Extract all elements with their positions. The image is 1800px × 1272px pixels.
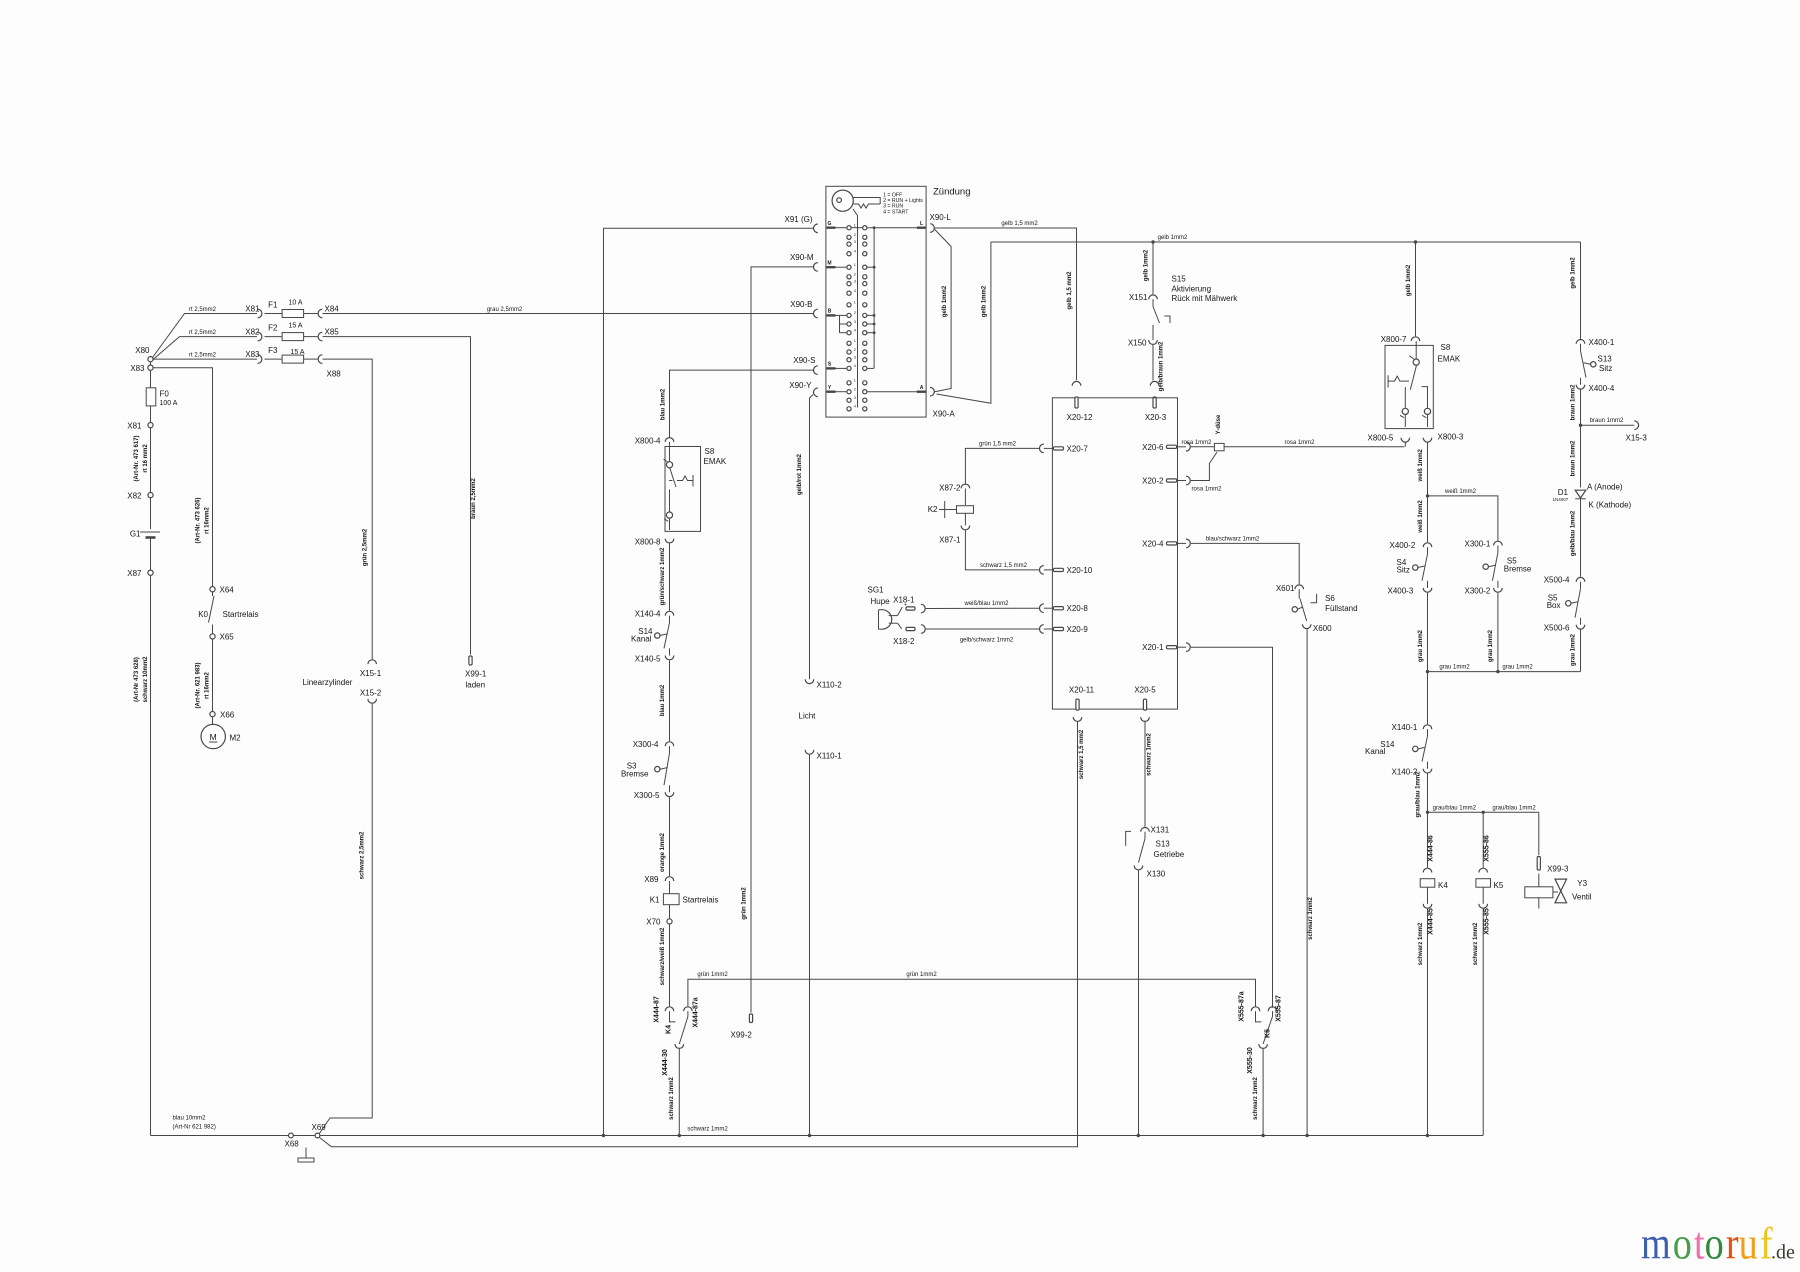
svg-text:X20-12: X20-12	[1067, 413, 1093, 422]
svg-text:X444-85: X444-85	[1428, 908, 1435, 935]
bus upper schwarz 1mm2	[320, 1135, 1483, 1137]
connector X90-M	[813, 263, 817, 272]
svg-text:Y-düse: Y-düse	[1216, 414, 1222, 434]
svg-text:X140-4: X140-4	[635, 610, 661, 619]
svg-text:X81: X81	[127, 422, 142, 431]
svg-text:X90-Y: X90-Y	[789, 381, 812, 390]
pin X20-4	[1186, 539, 1190, 548]
switch S13 Getriebe	[1144, 832, 1146, 839]
svg-text:X15-3: X15-3	[1626, 434, 1648, 443]
node X82	[148, 493, 153, 498]
connector X87-1	[961, 526, 970, 530]
wire grau to grau bus	[1580, 630, 1582, 672]
wire to valve Y3	[1483, 811, 1539, 813]
svg-text:X444-87a: X444-87a	[693, 997, 700, 1027]
svg-text:t: t	[1694, 1218, 1705, 1269]
svg-text:X131: X131	[1151, 826, 1170, 835]
svg-text:F1: F1	[268, 301, 278, 310]
svg-text:(Art-Nr 473 628): (Art-Nr 473 628)	[134, 657, 140, 702]
junction weiss	[1426, 494, 1429, 497]
junction	[1305, 1134, 1308, 1137]
wire schwarz K5 to bus	[1482, 909, 1484, 1136]
svg-text:X18-2: X18-2	[893, 637, 915, 646]
connector X140-1	[1423, 725, 1432, 729]
svg-text:S15: S15	[1172, 275, 1187, 284]
svg-text:gelb 1,5 mm2: gelb 1,5 mm2	[1067, 271, 1073, 310]
connector X500-6	[1576, 625, 1585, 629]
connector X89	[665, 877, 674, 881]
pin X20-8	[1040, 604, 1044, 613]
svg-text:rt 2,5mm2: rt 2,5mm2	[189, 353, 217, 359]
svg-text:X18-1: X18-1	[893, 596, 915, 605]
junction	[1261, 1134, 1264, 1137]
svg-text:X20-10: X20-10	[1067, 566, 1093, 575]
svg-text:4: 4	[854, 364, 856, 368]
relay coil K1 Startrelais	[669, 881, 671, 894]
svg-text:weiß/blau 1mm2: weiß/blau 1mm2	[963, 601, 1009, 607]
wire schwarz K4 to bus	[1427, 909, 1429, 1136]
svg-text:X90-S: X90-S	[793, 356, 815, 365]
wire X110-1 down to bus	[809, 757, 811, 1136]
svg-text:X20-7: X20-7	[1067, 444, 1089, 453]
wire schwarz 2,5mm2	[319, 704, 372, 1134]
connector X83 fuse row	[258, 355, 262, 364]
svg-text:X444-87: X444-87	[654, 996, 661, 1023]
svg-text:F0: F0	[160, 390, 170, 399]
switch S5 Bremse	[1497, 546, 1499, 553]
junction grau/blau	[1426, 811, 1429, 814]
wire orange down	[669, 797, 671, 876]
svg-text:X88: X88	[327, 370, 342, 379]
svg-text:X555-87: X555-87	[1276, 995, 1283, 1022]
svg-text:Rück mit Mähwerk: Rück mit Mähwerk	[1172, 294, 1239, 303]
pin X20-2	[1186, 476, 1190, 485]
connector X140-2	[1423, 769, 1432, 773]
svg-text:rt 2,5mm2: rt 2,5mm2	[189, 330, 217, 336]
wire gruen/schwarz down	[669, 543, 671, 610]
node X81	[148, 423, 153, 428]
wire X600 down to bus	[1306, 629, 1308, 1135]
svg-text:schwarz/weiß 1mm2: schwarz/weiß 1mm2	[660, 927, 666, 985]
svg-text:K5: K5	[1494, 881, 1504, 890]
svg-text:X110-1: X110-1	[817, 752, 843, 761]
svg-text:schwarz 1mm2: schwarz 1mm2	[687, 1127, 728, 1133]
svg-text:1: 1	[854, 263, 856, 267]
svg-text:X87: X87	[127, 569, 142, 578]
svg-text:X87-1: X87-1	[939, 536, 961, 545]
svg-text:S8: S8	[1441, 343, 1451, 352]
relay contact K4 changeover	[670, 1011, 676, 1022]
svg-text:F3: F3	[268, 346, 278, 355]
svg-text:A (Anode): A (Anode)	[1587, 483, 1623, 492]
junction	[1426, 1134, 1429, 1137]
svg-text:grau 2,5mm2: grau 2,5mm2	[487, 307, 523, 313]
svg-text:o: o	[1705, 1218, 1724, 1269]
wire X800-5 to rosa line	[1404, 443, 1406, 447]
svg-text:4: 4	[854, 405, 856, 409]
svg-text:X90-L: X90-L	[930, 213, 952, 222]
svg-text:.de: .de	[1771, 1242, 1795, 1264]
svg-text:rosa 1mm2: rosa 1mm2	[1191, 486, 1222, 492]
wire X20-5 down to X131	[1144, 722, 1146, 827]
svg-text:X400-3: X400-3	[1388, 587, 1414, 596]
pin X20-11	[1076, 699, 1079, 710]
svg-text:X64: X64	[220, 586, 235, 595]
switch S4 Sitz	[1427, 547, 1429, 554]
ignition rotor line	[853, 209, 858, 408]
connector X110-2	[805, 679, 814, 683]
svg-text:X83: X83	[245, 350, 260, 359]
wire	[293, 1135, 315, 1137]
svg-text:blau 1mm2: blau 1mm2	[661, 388, 667, 420]
svg-text:15 A: 15 A	[289, 323, 303, 330]
svg-text:3: 3	[854, 320, 856, 324]
svg-text:grau 1mm2: grau 1mm2	[1488, 629, 1494, 662]
svg-text:S13: S13	[1156, 840, 1171, 849]
svg-text:S8: S8	[705, 447, 715, 456]
wire	[150, 498, 152, 529]
pin X20-9	[1040, 625, 1044, 634]
svg-text:Kanal: Kanal	[1365, 747, 1386, 756]
wire gelb bus to X400-1	[1580, 242, 1582, 339]
junction	[1137, 1134, 1140, 1137]
connector X84	[304, 313, 318, 315]
wire X90-L jumper to X90-A	[935, 230, 951, 392]
ignition internal bus	[873, 228, 875, 369]
svg-text:grün 1,5 mm2: grün 1,5 mm2	[979, 441, 1017, 447]
svg-text:o: o	[1673, 1218, 1692, 1269]
svg-text:X66: X66	[220, 711, 235, 720]
svg-text:K5: K5	[1265, 1029, 1272, 1038]
connector X87-2	[961, 484, 970, 488]
svg-text:Bremse: Bremse	[1504, 565, 1532, 574]
svg-text:K4: K4	[666, 1025, 673, 1034]
svg-text:Linearzylinder: Linearzylinder	[303, 678, 353, 687]
switch S14 Kanal right	[1427, 729, 1429, 736]
fuse F2	[265, 336, 283, 338]
connector X99-3	[1537, 857, 1540, 871]
wire	[150, 370, 152, 388]
svg-text:A: A	[920, 385, 924, 391]
svg-text:schwarz 1,5 mm2: schwarz 1,5 mm2	[1079, 729, 1085, 779]
wire X20-2 to connector	[1191, 452, 1217, 480]
svg-text:orange 1mm2: orange 1mm2	[660, 832, 666, 872]
svg-text:schwarz 2,5mm2: schwarz 2,5mm2	[360, 831, 366, 879]
svg-text:15 A: 15 A	[291, 349, 305, 356]
connector X800-8	[665, 539, 674, 543]
wire gelb bus to X800-7	[1415, 242, 1417, 336]
svg-text:M: M	[827, 260, 831, 266]
switch S5 Box	[1580, 582, 1582, 589]
switch S14 Kanal left	[669, 616, 671, 623]
svg-text:X150: X150	[1128, 339, 1147, 348]
svg-text:S6: S6	[1325, 594, 1335, 603]
wire grau/blau to K5 coil	[1482, 812, 1484, 867]
wire	[1538, 874, 1540, 887]
pin X20-5	[1143, 699, 1146, 710]
node X80	[148, 357, 153, 362]
connector X99-1 laden	[469, 656, 472, 665]
svg-text:X555-87a: X555-87a	[1239, 991, 1246, 1021]
svg-text:L: L	[920, 221, 923, 227]
svg-text:Box: Box	[1547, 601, 1561, 610]
junction	[1414, 240, 1417, 243]
connector X600	[1302, 624, 1311, 628]
svg-text:rt 16 mm2: rt 16 mm2	[143, 444, 149, 473]
svg-text:X85: X85	[325, 328, 340, 337]
svg-text:X90-B: X90-B	[790, 300, 812, 309]
connector X500-4	[1576, 577, 1585, 581]
svg-text:X400-4: X400-4	[1589, 384, 1615, 393]
svg-text:grau 1mm2: grau 1mm2	[1571, 633, 1577, 666]
node X66	[210, 712, 215, 717]
connector X15-1	[368, 660, 377, 664]
svg-text:3: 3	[854, 356, 856, 360]
connector X800-5	[1401, 438, 1410, 442]
connector X20-3 top	[1150, 381, 1159, 385]
switch S15 Aktivierung	[1152, 299, 1154, 306]
connector X90-S	[813, 366, 817, 375]
bus grau 1mm2	[1428, 671, 1581, 673]
wire	[150, 406, 152, 423]
svg-text:X300-4: X300-4	[633, 740, 659, 749]
pin X20-7	[1040, 444, 1044, 453]
ignition switch Zuendung box	[826, 186, 926, 417]
wire X80 to F2	[153, 337, 258, 360]
wire weiss branch to X300-1	[1428, 496, 1498, 541]
junction	[602, 1134, 605, 1137]
wire schwarz to bus	[1262, 1049, 1264, 1136]
motor M2	[212, 717, 214, 725]
svg-text:M2: M2	[230, 734, 242, 743]
svg-text:2: 2	[854, 273, 856, 277]
svg-text:EMAK: EMAK	[1438, 355, 1461, 364]
svg-text:gelb 1mm2: gelb 1mm2	[1158, 235, 1188, 241]
connector X300-5	[665, 792, 674, 796]
svg-text:X444-86: X444-86	[1428, 835, 1435, 862]
svg-text:blau/schwarz 1mm2: blau/schwarz 1mm2	[1206, 536, 1260, 542]
svg-text:X87-2: X87-2	[939, 484, 961, 493]
wire gelb/schwarz X18-2 to X20-9	[926, 628, 1039, 630]
wire braun down	[1580, 390, 1582, 488]
svg-text:Bremse: Bremse	[621, 770, 649, 779]
svg-text:X500-6: X500-6	[1544, 624, 1570, 633]
svg-text:100 A: 100 A	[160, 400, 178, 407]
svg-text:X83: X83	[130, 364, 145, 373]
svg-text:(Art-Nr. 621 983): (Art-Nr. 621 983)	[196, 662, 202, 708]
svg-text:X90-A: X90-A	[933, 410, 956, 419]
svg-text:X80: X80	[135, 346, 150, 355]
wire X20-1 to X555-87	[1191, 647, 1273, 1008]
svg-text:X800-7: X800-7	[1381, 335, 1407, 344]
svg-text:X140-1: X140-1	[1392, 723, 1418, 732]
svg-text:weiß 1mm2: weiß 1mm2	[1418, 500, 1424, 534]
svg-text:X69: X69	[312, 1123, 327, 1132]
svg-text:X89: X89	[644, 875, 659, 884]
svg-text:F2: F2	[268, 324, 278, 333]
svg-text:1: 1	[854, 301, 856, 305]
svg-text:gelb/blau 1mm2: gelb/blau 1mm2	[1571, 510, 1577, 556]
connector X91 (G)	[813, 224, 817, 233]
connector X400-3	[1423, 588, 1432, 592]
svg-text:Kanal: Kanal	[631, 635, 652, 644]
wire X80 to F1	[153, 314, 258, 358]
svg-text:Startrelais: Startrelais	[223, 610, 259, 619]
wire X80 to F3	[153, 358, 257, 360]
connector X555-85	[1479, 904, 1488, 908]
connector X90-L	[930, 224, 934, 233]
svg-text:X800-5: X800-5	[1368, 434, 1394, 443]
svg-text:2: 2	[854, 348, 856, 352]
svg-text:2: 2	[854, 388, 856, 392]
wire weiss/blau X18-1 to X20-8	[926, 607, 1039, 609]
svg-text:Sitz: Sitz	[1397, 565, 1410, 574]
connector X85	[304, 336, 318, 338]
junction	[1496, 670, 1499, 673]
svg-text:grün 2,5mm2: grün 2,5mm2	[363, 528, 369, 566]
wire blau down	[669, 660, 671, 741]
relay contact K5 changeover	[1256, 1011, 1262, 1022]
svg-text:(Art-Nr 621 982): (Art-Nr 621 982)	[173, 1125, 216, 1131]
svg-text:gelb 1mm2: gelb 1mm2	[942, 285, 948, 317]
svg-text:schwarz 1mm2: schwarz 1mm2	[1147, 733, 1153, 776]
svg-text:X81: X81	[245, 305, 260, 314]
junction	[808, 1134, 811, 1137]
svg-text:(Art-Nr. 473 626): (Art-Nr. 473 626)	[196, 497, 202, 543]
svg-text:K0: K0	[198, 610, 208, 619]
svg-text:schwarz 10mm2: schwarz 10mm2	[143, 656, 149, 703]
svg-text:Füllstand: Füllstand	[1325, 604, 1357, 613]
svg-text:X20-8: X20-8	[1067, 604, 1089, 613]
svg-text:X20-1: X20-1	[1142, 643, 1164, 652]
svg-text:G: G	[828, 221, 832, 227]
svg-text:gelb 1mm2: gelb 1mm2	[1144, 249, 1150, 281]
node X64	[210, 587, 215, 592]
ignition links	[851, 227, 863, 229]
svg-text:X99-3: X99-3	[1547, 865, 1569, 874]
connector X800-7	[1411, 337, 1420, 341]
svg-text:schwarz 1mm2: schwarz 1mm2	[669, 1077, 675, 1120]
connector X555-86	[1479, 868, 1488, 872]
bus lower	[320, 722, 1078, 1147]
svg-text:grün 1mm2: grün 1mm2	[906, 972, 937, 978]
wire X90-L gelb 1,5mm2 to X20-12	[935, 228, 1077, 380]
relay switch S8 EMAK right box	[1385, 345, 1433, 428]
svg-text:X91 (G): X91 (G)	[784, 215, 812, 224]
connector X444-85	[1423, 904, 1432, 908]
svg-text:X555-86: X555-86	[1484, 835, 1491, 862]
wire gelb/braun to X20-3	[1152, 345, 1154, 381]
wire X91 G down to bus	[604, 228, 814, 1135]
relay coil K5	[1476, 879, 1491, 888]
controller box X20	[1052, 398, 1177, 709]
wire to X68	[151, 1135, 289, 1137]
svg-text:r: r	[1726, 1218, 1739, 1269]
svg-text:blau 10mm2: blau 10mm2	[173, 1116, 207, 1122]
pin X20-12	[1072, 381, 1081, 385]
wire grau down	[1427, 593, 1429, 725]
wire X90-S down to X800-4	[670, 370, 814, 437]
switch S3 Bremse	[669, 746, 671, 753]
connector X444-87a	[684, 1007, 693, 1011]
fuse F3	[265, 358, 283, 360]
svg-text:X110-2: X110-2	[817, 681, 843, 690]
connector X151	[1149, 295, 1158, 299]
svg-text:rt 16mm2: rt 16mm2	[205, 507, 211, 534]
svg-text:Licht: Licht	[799, 712, 817, 721]
svg-text:1: 1	[854, 339, 856, 343]
connector X444-87	[665, 1007, 674, 1011]
svg-text:D1: D1	[1558, 488, 1569, 497]
svg-text:gelb/rot 1mm2: gelb/rot 1mm2	[797, 453, 803, 495]
svg-text:Ventil: Ventil	[1572, 893, 1592, 902]
svg-text:X151: X151	[1129, 293, 1148, 302]
connector X150	[1152, 325, 1154, 340]
connector X444-86	[1423, 868, 1432, 872]
suppressor K2	[964, 488, 966, 505]
svg-text:X300-2: X300-2	[1465, 587, 1491, 596]
svg-text:u: u	[1739, 1218, 1758, 1269]
wire grau/blau horizontal	[1428, 811, 1484, 813]
relay coil K4	[1420, 879, 1435, 888]
svg-text:X800-3: X800-3	[1438, 433, 1464, 442]
wire schwarz/weiss down	[669, 924, 671, 1006]
svg-text:X601: X601	[1276, 584, 1295, 593]
wire X90-A riser to gelb bus	[937, 242, 991, 403]
wire gelb to X151	[1152, 242, 1154, 294]
svg-text:1N4007: 1N4007	[1553, 497, 1569, 502]
connector X18-2	[906, 627, 915, 630]
wire grau 2,5mm2 to X90-B	[323, 313, 814, 315]
svg-text:X68: X68	[285, 1140, 300, 1149]
svg-text:X130: X130	[1147, 870, 1166, 879]
node X70	[667, 919, 672, 924]
svg-text:SG1: SG1	[868, 586, 885, 595]
connector X15-2	[368, 699, 377, 703]
svg-text:X800-4: X800-4	[635, 437, 661, 446]
relay switch S8 EMAK left box	[665, 447, 701, 532]
svg-text:10 A: 10 A	[289, 300, 303, 307]
svg-text:(Art-Nr. 473 617): (Art-Nr. 473 617)	[134, 435, 140, 481]
svg-text:gelb/schwarz 1mm2: gelb/schwarz 1mm2	[960, 638, 1014, 644]
junction grau bus	[1426, 670, 1429, 673]
svg-text:K1: K1	[650, 896, 660, 905]
motoruf.de logo	[1641, 1218, 1795, 1269]
svg-text:X20-9: X20-9	[1067, 625, 1089, 634]
svg-text:X444-30: X444-30	[662, 1049, 669, 1076]
svg-text:X99-1: X99-1	[465, 670, 487, 679]
switch S13 Sitz	[1580, 344, 1582, 351]
connector X300-4	[665, 742, 674, 746]
connector X400-2	[1423, 543, 1432, 547]
connector X800-4	[665, 438, 674, 442]
svg-text:Y3: Y3	[1577, 879, 1587, 888]
svg-text:X20-6: X20-6	[1142, 443, 1164, 452]
svg-text:3: 3	[854, 240, 856, 244]
svg-text:X90-M: X90-M	[790, 253, 814, 262]
svg-text:X800-8: X800-8	[635, 538, 661, 547]
svg-text:gelb/braun 1mm2: gelb/braun 1mm2	[1159, 341, 1165, 391]
connector X15-3	[1634, 421, 1638, 430]
svg-text:X140-2: X140-2	[1392, 768, 1418, 777]
wire schwarz to bus	[678, 1049, 680, 1136]
svg-text:4: 4	[854, 289, 856, 293]
svg-text:X20-11: X20-11	[1069, 686, 1095, 695]
svg-text:K4: K4	[1438, 881, 1448, 890]
svg-text:grau/blau 1mm2: grau/blau 1mm2	[1492, 805, 1536, 811]
svg-text:Aktivierung: Aktivierung	[1172, 285, 1212, 294]
wire X83 to starter column	[153, 368, 212, 587]
